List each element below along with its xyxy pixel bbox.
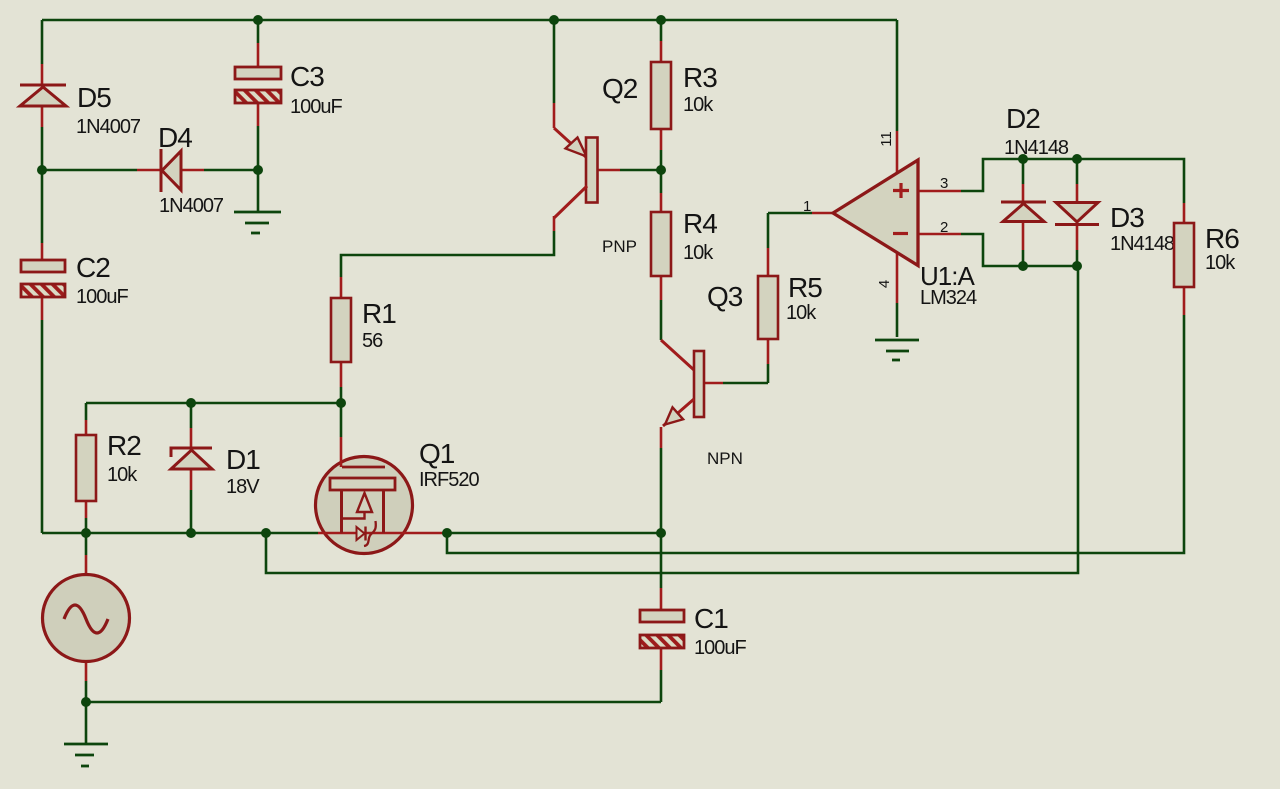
node top rail C3: [253, 15, 263, 25]
wire D2 top: [1022, 159, 1025, 184]
wire R2 bottom lead: [85, 518, 88, 533]
lead C1 bottom: [660, 648, 663, 670]
svg-text:LM324: LM324: [920, 287, 977, 309]
wire net B: [266, 266, 1078, 573]
node row170 right: [253, 165, 263, 175]
svg-text:100uF: 100uF: [694, 637, 746, 659]
lead R2 top: [85, 420, 88, 435]
lead opamp pin1: [812, 212, 833, 215]
svg-text:Q3: Q3: [707, 281, 743, 312]
svg-text:2: 2: [940, 219, 948, 236]
lead D3 top: [1076, 184, 1079, 202]
svg-text:D3: D3: [1110, 202, 1144, 233]
svg-text:100uF: 100uF: [76, 286, 128, 308]
lead R6 bottom: [1183, 287, 1186, 315]
diode D4: [161, 149, 181, 192]
wire row403: [86, 402, 341, 405]
svg-text:100uF: 100uF: [290, 96, 342, 118]
wire Q2 base: [620, 169, 661, 172]
node row533 netA: [442, 528, 452, 538]
wire row170 left: [42, 169, 137, 172]
svg-text:D1: D1: [226, 444, 260, 475]
wire opamp pin11 top: [896, 20, 899, 131]
wire R5 top: [767, 213, 770, 248]
transistor Q2: [554, 128, 598, 218]
svg-text:IRF520: IRF520: [419, 469, 479, 491]
wire C1 top: [660, 533, 663, 588]
wire row170 right: [204, 169, 258, 172]
wire Q2 emitter column: [553, 20, 556, 103]
wire bottom row702: [86, 701, 661, 704]
capacitor C1: [640, 610, 684, 648]
wire D2 bottom: [1022, 250, 1025, 266]
svg-text:10k: 10k: [683, 94, 714, 116]
wire C2 top: [41, 170, 44, 243]
lead opamp pin4: [896, 252, 899, 303]
svg-text:R4: R4: [683, 208, 717, 239]
wire D5 to node row170: [41, 127, 44, 170]
node top rail Q2: [549, 15, 559, 25]
svg-text:10k: 10k: [786, 302, 817, 324]
wire left column top: [41, 20, 44, 64]
wire R4 top: [660, 170, 663, 193]
lead D2 bottom: [1022, 221, 1025, 250]
ground G1: [234, 212, 281, 233]
wire pin3 to D rail: [961, 159, 1184, 203]
red lead segments: [42, 41, 1184, 681]
svg-text:10k: 10k: [683, 242, 714, 264]
op-amp U1: [833, 160, 918, 266]
wire top rail: [42, 19, 897, 22]
lead Q2 emitter: [553, 103, 556, 128]
wire D3 top: [1076, 159, 1079, 184]
node row533 netB: [261, 528, 271, 538]
lead R5 bottom: [767, 339, 770, 364]
wire Q3 base green: [723, 382, 768, 385]
svg-text:56: 56: [362, 330, 383, 352]
wire R1 top elbow to Q2 collector: [341, 231, 554, 277]
node D3 bottom: [1072, 261, 1082, 271]
lead opamp pin3: [918, 190, 961, 193]
svg-text:R6: R6: [1205, 223, 1239, 254]
wire pin2 to D bottom rail: [961, 234, 1078, 266]
wire D1 bottom: [190, 490, 193, 533]
lead Q2 collector vertical: [553, 216, 556, 231]
wire R4 bottom: [660, 300, 663, 340]
svg-text:10k: 10k: [1205, 252, 1236, 274]
resistor R6: [1174, 223, 1194, 287]
capacitor C3: [235, 67, 281, 103]
lead R6 top: [1183, 203, 1186, 223]
diode D3: [1055, 203, 1099, 225]
wire R2 top lead: [85, 403, 88, 420]
lead D2 top: [1022, 184, 1025, 202]
wire C1 bottom: [660, 670, 663, 702]
svg-text:11: 11: [878, 131, 895, 147]
lead R2 bottom: [85, 501, 88, 518]
svg-text:PNP: PNP: [602, 237, 637, 256]
svg-text:R3: R3: [683, 62, 717, 93]
resistor R2: [76, 435, 96, 501]
lead C1 top: [660, 588, 663, 610]
wire pin1 row: [768, 212, 812, 215]
wire R5 bottom to Q3 base: [767, 364, 770, 383]
svg-text:R5: R5: [788, 272, 822, 303]
node row533 source: [81, 528, 91, 538]
lead D1 top: [190, 428, 193, 449]
svg-text:R1: R1: [362, 298, 396, 329]
lead C2 top: [41, 243, 44, 260]
lead D4 left: [137, 169, 161, 172]
node top rail R3: [656, 15, 666, 25]
lead R1 top: [340, 277, 343, 298]
resistor R1: [331, 298, 351, 362]
svg-text:1N4148: 1N4148: [1110, 233, 1175, 255]
lead D5 top: [41, 64, 44, 85]
node source bottom: [81, 697, 91, 707]
sine source V1: [43, 575, 130, 662]
wire C3 top: [257, 20, 260, 43]
wire source bottom: [85, 681, 88, 702]
resistor R5: [758, 276, 778, 339]
svg-text:C1: C1: [694, 603, 728, 634]
diode D2: [1001, 202, 1046, 222]
lead C3 bottom: [257, 103, 260, 126]
lead Q2 base: [597, 169, 620, 172]
svg-text:D4: D4: [158, 122, 192, 153]
svg-text:1N4148: 1N4148: [1004, 137, 1069, 159]
wire row533 left: [42, 532, 318, 535]
lead D1 bottom: [190, 469, 193, 490]
lead opamp pin2: [918, 233, 961, 236]
wire ground stem G1: [257, 170, 260, 212]
lead R1 bottom: [340, 362, 343, 387]
node row170 left: [37, 165, 47, 175]
svg-text:C3: C3: [290, 61, 324, 92]
svg-text:10k: 10k: [107, 464, 138, 486]
lead R3 top: [660, 41, 663, 62]
wire net A: [447, 315, 1184, 553]
lead opamp pin11: [896, 131, 899, 174]
svg-text:Q2: Q2: [602, 73, 638, 104]
node D2 bottom: [1018, 261, 1028, 271]
ground G3 opamp: [875, 340, 919, 360]
lead Q3 base: [704, 382, 723, 385]
lead C3 top: [257, 43, 260, 67]
node D2 top: [1018, 154, 1028, 164]
zener D1: [171, 448, 212, 469]
wire C2 bottom to row533: [41, 320, 44, 533]
svg-text:NPN: NPN: [707, 449, 743, 468]
svg-text:1N4007: 1N4007: [159, 195, 224, 217]
wire R3 top: [660, 20, 663, 41]
resistor R3: [651, 62, 671, 129]
wire R1 bottom: [340, 387, 343, 403]
svg-text:C2: C2: [76, 252, 110, 283]
wire Q1 gate: [340, 403, 343, 437]
lead D5 bottom: [41, 106, 44, 127]
lead D4 right: [181, 169, 204, 172]
lead source top: [85, 555, 88, 577]
wire C3 bottom: [257, 126, 260, 170]
wire source top: [85, 533, 88, 555]
lead Q3 emitter vertical: [660, 427, 663, 448]
wire D3 bottom: [1076, 250, 1079, 266]
lead C2 bottom: [41, 296, 44, 320]
lead R4 top: [660, 193, 663, 212]
lead R5 top: [767, 248, 770, 276]
svg-text:1N4007: 1N4007: [76, 116, 141, 138]
node row533 C1: [656, 528, 666, 538]
node D3 top: [1072, 154, 1082, 164]
wire row533 right: [447, 532, 661, 535]
wire D1 top: [190, 403, 193, 428]
svg-text:18V: 18V: [226, 476, 260, 498]
lead R4 bottom: [660, 276, 663, 300]
diode D5: [20, 85, 66, 106]
lead R3 bottom: [660, 129, 663, 150]
wire Q3 emitter bottom: [660, 448, 663, 533]
wire ground stem G2: [85, 702, 88, 744]
transistor Q3: [661, 340, 704, 426]
node row533 D1: [186, 528, 196, 538]
svg-text:D5: D5: [77, 82, 111, 113]
resistor R4: [651, 212, 671, 276]
svg-text:3: 3: [940, 175, 948, 192]
node D1 top: [186, 398, 196, 408]
node R1 bottom gate: [336, 398, 346, 408]
node Q2 base R3 R4: [656, 165, 666, 175]
mosfet Q1: [316, 437, 448, 554]
capacitor C2: [21, 260, 65, 297]
svg-text:Q1: Q1: [419, 438, 455, 469]
svg-text:1: 1: [803, 198, 811, 215]
svg-text:R2: R2: [107, 430, 141, 461]
wire R3 bottom: [660, 150, 663, 170]
ground G2: [64, 744, 108, 766]
wire opamp pin4 bottom: [896, 303, 899, 337]
svg-text:D2: D2: [1006, 103, 1040, 134]
svg-text:4: 4: [876, 280, 893, 288]
lead source bottom: [85, 659, 88, 681]
lead D3 bottom: [1076, 224, 1079, 250]
